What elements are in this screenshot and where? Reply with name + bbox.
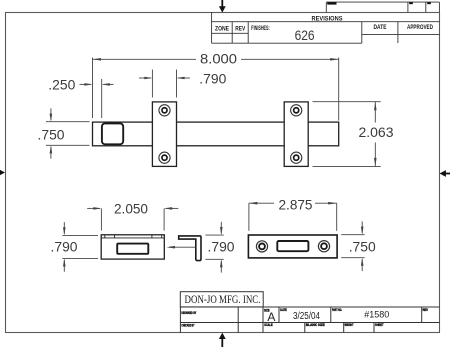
strike plate face view: [248, 235, 337, 258]
dimension .750 strike height: [341, 221, 364, 271]
right guide plate: [284, 102, 308, 166]
screw hole left plate bottom: [159, 152, 170, 163]
svg-text:ZONE: ZONE: [215, 27, 229, 33]
dimension 2.050: [87, 207, 178, 231]
svg-text:A: A: [267, 310, 275, 324]
svg-text:3/25/04: 3/25/04: [293, 311, 320, 322]
svg-text:APPROVED: APPROVED: [407, 25, 434, 31]
centering arrow bottom: [219, 333, 226, 347]
svg-text:CHECKED BY: CHECKED BY: [181, 324, 194, 328]
svg-text:SHEET: SHEET: [375, 323, 384, 327]
svg-text:8.000: 8.000: [200, 51, 237, 67]
svg-text:REV: REV: [423, 308, 429, 312]
dimension .790 left (plate height): [62, 222, 98, 272]
screw hole right plate bottom: [291, 152, 302, 163]
svg-text:626: 626: [295, 27, 315, 43]
svg-text:PART NO.: PART NO.: [332, 308, 342, 312]
bolt rod body: [93, 122, 339, 146]
svg-text:DESIGNED BY: DESIGNED BY: [181, 311, 196, 315]
svg-text:.750: .750: [38, 126, 65, 142]
strike left hole: [256, 241, 267, 252]
svg-text:FINISHES:: FINISHES:: [251, 26, 269, 32]
guide plate top view: [101, 235, 164, 259]
dimension 2.875: [249, 202, 337, 231]
title block: [180, 292, 439, 333]
dimension .750 rod height: [46, 108, 90, 158]
dimension .790 right (bracket height): [205, 222, 223, 273]
angle bracket side view: [179, 236, 201, 261]
svg-text:.790: .790: [199, 71, 226, 87]
svg-text:2.875: 2.875: [279, 196, 313, 212]
svg-text:REV: REV: [235, 27, 245, 33]
svg-text:.750: .750: [349, 238, 376, 254]
slot opening: [117, 244, 148, 254]
strike slot: [277, 241, 308, 251]
dimension .790 plate width: [139, 70, 190, 98]
svg-text:DATE: DATE: [280, 308, 287, 312]
screw hole right plate top: [291, 105, 302, 116]
company name box: [180, 292, 263, 307]
dimension .250: [80, 79, 114, 118]
svg-text:.790: .790: [208, 238, 235, 254]
revisions table: [212, 12, 440, 43]
screw hole left plate top: [159, 105, 170, 116]
centering arrow top: [219, 0, 226, 13]
dimension 2.063 plate height: [313, 102, 381, 167]
svg-text:2.063: 2.063: [359, 124, 394, 140]
svg-text:DATE: DATE: [374, 25, 387, 31]
plate top edge strip: [101, 237, 164, 239]
centering arrow left: [0, 169, 5, 176]
partial table row above top border: [326, 2, 439, 12]
svg-text:.250: .250: [48, 77, 75, 93]
slide knob: [102, 123, 123, 144]
dimension 8.000: [93, 58, 339, 121]
svg-text:REVISIONS: REVISIONS: [312, 16, 343, 22]
svg-text:2.050: 2.050: [114, 201, 148, 217]
svg-text:#1580: #1580: [364, 309, 389, 320]
black marks above border: [327, 2, 431, 4]
strike right hole: [318, 241, 329, 252]
svg-text:WEIGHT: WEIGHT: [345, 323, 355, 327]
strip tick marks: [105, 235, 162, 238]
leader arrow to plate edge: [167, 246, 196, 249]
svg-text:DON-JO MFG. INC.: DON-JO MFG. INC.: [185, 294, 261, 306]
centering arrow right: [440, 170, 450, 177]
svg-text:BLANK SIZE: BLANK SIZE: [306, 323, 326, 327]
svg-text:.790: .790: [51, 238, 78, 254]
left guide plate: [152, 102, 176, 166]
